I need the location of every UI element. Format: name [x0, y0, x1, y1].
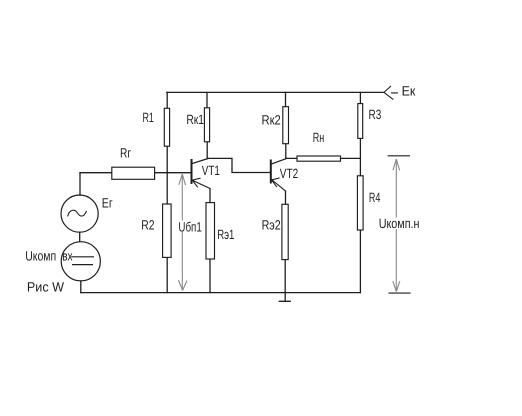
svg-text:Uкомп: Uкомп — [25, 248, 56, 263]
svg-text:Ек: Ек — [402, 83, 416, 98]
svg-text:Uкомп.н: Uкомп.н — [379, 216, 420, 231]
svg-text:вх: вх — [62, 248, 73, 263]
svg-text:VT2: VT2 — [280, 166, 298, 181]
svg-text:Rк2: Rк2 — [262, 112, 281, 127]
svg-text:VT1: VT1 — [202, 163, 220, 178]
svg-text:Rн: Rн — [313, 130, 325, 145]
svg-text:R2: R2 — [141, 218, 154, 233]
svg-text:Ег: Ег — [102, 195, 113, 210]
svg-text:R1: R1 — [143, 110, 154, 125]
svg-text:Rэ2: Rэ2 — [262, 218, 281, 233]
svg-text:Rк1: Rк1 — [186, 112, 204, 127]
svg-text:R3: R3 — [369, 107, 382, 122]
svg-text:Rг: Rг — [120, 145, 131, 160]
svg-text:R4: R4 — [369, 190, 381, 205]
svg-text:Rэ1: Rэ1 — [217, 227, 234, 242]
svg-text:Uбп1: Uбп1 — [178, 219, 201, 234]
svg-text:Рис W: Рис W — [27, 280, 64, 295]
